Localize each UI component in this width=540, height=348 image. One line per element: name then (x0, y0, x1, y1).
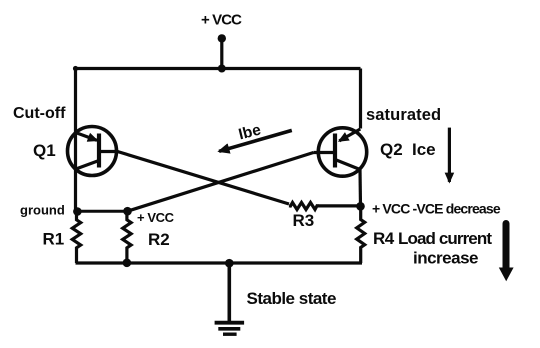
svg-text:Ice: Ice (412, 140, 436, 159)
svg-text:Cut-off: Cut-off (13, 105, 66, 122)
transistor Q2 (314, 128, 367, 176)
node: ground label node on R1 (73, 207, 82, 216)
svg-text:increase: increase (413, 249, 478, 268)
wire: Ice current arrow (448, 128, 451, 182)
node: R2 bottom junction (123, 259, 132, 268)
wire: Q2 base to R2 top (cross-coupling) (128, 153, 314, 212)
wire: load-current thick arrow (499, 224, 514, 282)
node: VCC terminal dot (218, 34, 226, 42)
svg-text:+ VCC: + VCC (201, 12, 242, 29)
wire: top rail (76, 67, 361, 70)
svg-text:ground: ground (20, 203, 65, 218)
svg-text:saturated: saturated (366, 106, 441, 124)
transistor Q1 (68, 127, 119, 176)
svg-text:+ VCC: + VCC (137, 210, 175, 225)
node: top-left corner (73, 66, 78, 71)
svg-text:R2: R2 (148, 230, 170, 249)
resistor R2 (123, 212, 131, 264)
wire: R3 to right rail (318, 204, 361, 207)
wire: left vertical (collector branch of Q1) (74, 69, 77, 212)
svg-text:Q1: Q1 (33, 141, 56, 160)
wire: bottom rail (76, 261, 363, 264)
svg-text:Stable state: Stable state (247, 289, 336, 308)
wire: R1 top to R2 top (77, 210, 127, 213)
resistor R4 (357, 206, 365, 263)
svg-text:Q2: Q2 (380, 140, 403, 159)
svg-text:Load current: Load current (398, 229, 492, 248)
wire: right vertical (Q2 emitter to R4 node) (358, 170, 362, 207)
node: junction of VCC stem and top rail (218, 65, 226, 73)
resistor R1 (72, 212, 80, 264)
svg-text:+ VCC -VCE decrease: + VCC -VCE decrease (372, 201, 501, 217)
wire: ground stem (228, 263, 232, 321)
svg-text:R3: R3 (293, 211, 315, 230)
wire: Q1 collector to R3 (cross-coupling) (118, 152, 290, 205)
node: R2 top junction (123, 207, 132, 216)
resistor R3 (289, 203, 319, 210)
svg-text:R4: R4 (373, 229, 395, 248)
svg-text:R1: R1 (43, 230, 65, 249)
wire: Ibe current arrow (219, 130, 292, 151)
node: R3/R4 junction on right rail (356, 202, 365, 211)
wire: right vertical top (rail to Q2) (359, 69, 362, 129)
node: ground stem junction (225, 259, 234, 268)
ground symbol (215, 323, 245, 335)
wire: top VCC stem (220, 38, 223, 69)
